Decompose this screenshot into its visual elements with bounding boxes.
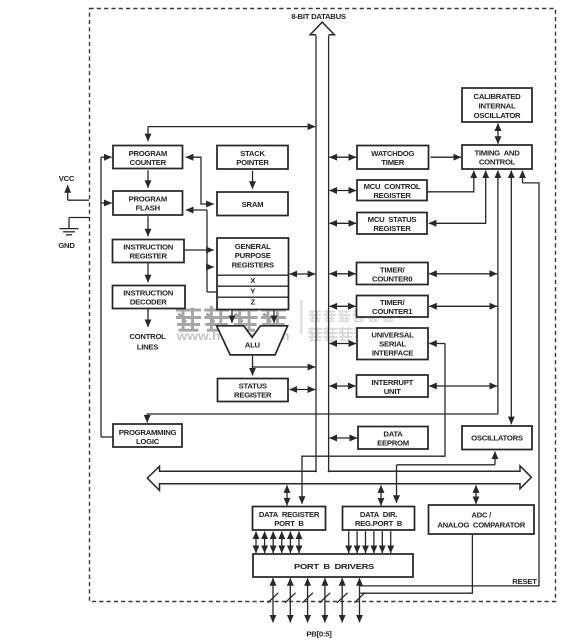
svg-text:COUNTER0: COUNTER0 (372, 274, 412, 283)
svg-text:TIMING AND: TIMING AND (474, 149, 520, 158)
svg-text:SRAM: SRAM (242, 200, 264, 209)
block WATCHDOG TIMER (357, 146, 429, 170)
wire mcu status register to timing and control (429, 171, 486, 224)
svg-text:UNIVERSAL: UNIVERSAL (371, 330, 414, 339)
wire watchdog to timing and control (431, 156, 462, 158)
svg-text:OSCILLATORS: OSCILLATORS (471, 434, 523, 443)
block TIMING AND CONTROL (462, 145, 532, 169)
svg-text:MCU CONTROL: MCU CONTROL (364, 182, 421, 191)
svg-text:Y: Y (250, 287, 255, 296)
wire INSTRUCTION REGISTER to GPR (185, 249, 214, 251)
svg-text:VCC: VCC (59, 174, 75, 183)
wire PROGRAM FLASH to INSTRUCTION REGISTER (147, 216, 149, 236)
block INSTRUCTION REGISTER (113, 240, 185, 263)
svg-text:PROGRAM: PROGRAM (129, 149, 167, 158)
svg-text:RESET: RESET (512, 577, 537, 586)
wire timer1 to timing rail (429, 305, 497, 307)
wire oscillators to data dir register (494, 452, 496, 465)
svg-text:Z: Z (250, 298, 255, 307)
svg-text:MCU STATUS: MCU STATUS (368, 215, 417, 224)
svg-text:CONTROL: CONTROL (479, 158, 516, 167)
block INSTRUCTION DECODER (113, 286, 186, 309)
svg-text:LOGIC: LOGIC (136, 437, 160, 446)
wire usi to data register port b (429, 343, 445, 345)
block DATA REGISTER PORT B (253, 507, 326, 531)
svg-text:TIMER/: TIMER/ (380, 298, 406, 307)
block PROGRAM COUNTER (113, 146, 183, 169)
block STACK POINTER (217, 146, 288, 170)
svg-text:OSCILLATOR: OSCILLATOR (474, 111, 521, 120)
svg-text:COUNTER: COUNTER (130, 158, 167, 167)
wires data dir to port b drivers (349, 531, 391, 553)
wire GPR to databus (290, 273, 316, 275)
svg-text:PORT B DRIVERS: PORT B DRIVERS (294, 562, 374, 571)
block GENERAL PURPOSE REGISTERS (217, 238, 289, 310)
block PORT B DRIVERS (253, 554, 413, 577)
wires data register to port b drivers (256, 532, 299, 553)
wire databus to data register port b (286, 485, 288, 505)
svg-text:CALIBRATED: CALIBRATED (474, 92, 522, 101)
wire databus to usi (330, 343, 357, 345)
wire timing rail to programming logic (497, 171, 499, 414)
wire databus to data dir register (380, 485, 382, 505)
wire databus to timer0 (330, 273, 356, 275)
wire PC to SRAM step (186, 157, 214, 204)
svg-text:PURPOSE: PURPOSE (235, 251, 271, 260)
svg-text:GENERAL: GENERAL (235, 242, 271, 251)
block MCU CONTROL REGISTER (357, 180, 427, 201)
wire ALU branch to databus (253, 366, 316, 368)
block TIMER/COUNTER0 (357, 263, 429, 285)
block ADC / ANALOG COMPARATOR (429, 505, 535, 534)
svg-text:DATA: DATA (383, 429, 403, 438)
wire ALU to STATUS REGISTER (252, 356, 254, 376)
ground GND (58, 218, 89, 251)
svg-text:INTERNAL: INTERNAL (479, 101, 516, 110)
block DATA DIR REG PORT B (343, 507, 415, 531)
svg-text:INSTRUCTION: INSTRUCTION (123, 243, 173, 252)
bus: 8-bit databus vertical shaft (315, 36, 317, 473)
wire ID to control lines (147, 309, 149, 327)
svg-text:DECODER: DECODER (130, 298, 167, 307)
block STATUS REGISTER (218, 379, 289, 402)
block OSCILLATORS (462, 426, 532, 450)
wire interrupt unit to timing rail (429, 385, 497, 387)
svg-text:REGISTER: REGISTER (234, 391, 272, 400)
svg-text:DATA DIR.: DATA DIR. (360, 510, 397, 519)
wire GPR to ALU left (231, 310, 233, 323)
svg-text:PROGRAM: PROGRAM (129, 195, 167, 204)
svg-text:LINES: LINES (137, 343, 159, 352)
block UNIVERSAL SERIAL INTERFACE (357, 328, 428, 360)
block INTERRUPT UNIT (357, 375, 429, 397)
svg-text:CONTROL: CONTROL (129, 332, 166, 341)
svg-text:INTERRUPT: INTERRUPT (371, 378, 413, 387)
svg-text:PROGRAMMING: PROGRAMMING (119, 428, 177, 437)
block SRAM (217, 192, 288, 216)
block CALIBRATED INTERNAL OSCILLATOR (462, 88, 532, 122)
svg-text:REGISTER: REGISTER (130, 252, 168, 261)
svg-text:SERIAL: SERIAL (379, 339, 406, 348)
wires port b pins PB0-PB5 (273, 578, 360, 622)
wire databus to watchdog (330, 156, 357, 158)
svg-text:REGISTERS: REGISTERS (232, 260, 274, 269)
wire mcu control register to timing and control (428, 171, 474, 192)
block PROGRAMMING LOGIC (113, 424, 182, 447)
wire databus to mcu status register (330, 222, 357, 224)
svg-text:INTERFACE: INTERFACE (372, 348, 413, 357)
wire timer0 to timing rail (429, 273, 497, 275)
svg-text:TIMER: TIMER (381, 158, 404, 167)
svg-text:ADC /: ADC / (471, 511, 492, 520)
block MCU STATUS REGISTER (357, 213, 427, 235)
svg-text:UNIT: UNIT (384, 387, 401, 396)
svg-text:REG.PORT B: REG.PORT B (355, 519, 403, 528)
svg-text:PORT B: PORT B (274, 519, 304, 528)
wire reset rail (522, 171, 524, 183)
pin slashes (268, 593, 365, 603)
svg-text:WATCHDOG: WATCHDOG (371, 149, 414, 158)
svg-text:DATA REGISTER: DATA REGISTER (259, 510, 320, 519)
svg-text:STATUS: STATUS (239, 382, 267, 391)
svg-text:PB[0:5]: PB[0:5] (306, 630, 332, 639)
watermark big text (175, 300, 414, 343)
block PROGRAM FLASH (113, 191, 183, 215)
wire STATUS REGISTER to databus (290, 389, 316, 391)
wire GPR to ALU right (273, 310, 275, 323)
wire IR to INSTRUCTION DECODER (147, 263, 149, 282)
svg-text:STACK: STACK (240, 149, 265, 158)
svg-text:REGISTER: REGISTER (373, 191, 411, 200)
svg-text:TIMER/: TIMER/ (380, 265, 406, 274)
svg-text:8-BIT DATABUS: 8-BIT DATABUS (291, 12, 346, 21)
wire databus to timer1 (330, 305, 356, 307)
bus: 8-bit databus top arrowhead (310, 22, 334, 35)
power VCC (59, 174, 89, 200)
svg-text:FLASH: FLASH (136, 204, 161, 213)
wire calibrated oscillator to timing and control (497, 123, 499, 143)
svg-text:POINTER: POINTER (236, 158, 269, 167)
svg-text:COUNTER1: COUNTER1 (372, 307, 413, 316)
svg-text:EEPROM: EEPROM (377, 438, 409, 447)
block TIMER/COUNTER1 (357, 296, 429, 318)
wire databus to adc (475, 485, 477, 504)
wire STACK POINTER to SRAM (252, 171, 254, 189)
wire left rail (100, 157, 102, 437)
wire adc to port b line (360, 535, 472, 593)
wire program counter to databus (148, 126, 315, 128)
wire PC to PROGRAM FLASH (147, 170, 149, 188)
dashed chip boundary (90, 9, 556, 602)
wire databus to interrupt unit (330, 385, 356, 387)
wire databus to data eeprom (330, 437, 358, 439)
wire timing to oscillators rail (510, 171, 512, 425)
svg-text:GND: GND (58, 241, 75, 250)
wire PROGRAM FLASH right step to GPR (186, 209, 207, 211)
svg-text:INSTRUCTION: INSTRUCTION (123, 289, 173, 298)
bus: horizontal data bus double arrow (147, 466, 531, 491)
wire databus to mcu control register (330, 190, 357, 192)
svg-text:REGISTER: REGISTER (373, 224, 411, 233)
svg-text:ANALOG COMPARATOR: ANALOG COMPARATOR (437, 521, 525, 530)
alu ALU (217, 326, 288, 355)
block DATA EEPROM (358, 427, 428, 450)
svg-text:ALU: ALU (245, 341, 261, 350)
